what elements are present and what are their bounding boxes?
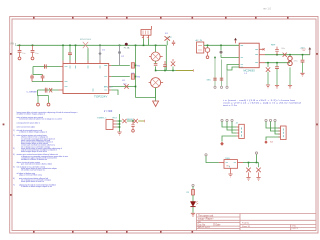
wire main HV rail <box>17 44 166 46</box>
svg-text:aliqua ut enim ad minim venia: aliqua ut enim ad minim venia <box>19 174 42 177</box>
supply arrow +24V <box>300 47 312 55</box>
svg-text:MC34063: MC34063 <box>244 68 256 72</box>
lamp/varistor circle RV3 <box>149 78 164 98</box>
connector J2 pads <box>221 119 223 121</box>
ground GND4 arrow <box>153 101 159 107</box>
wire left column x33 <box>32 67 34 75</box>
svg-text:VIN: VIN <box>10 43 14 46</box>
junction x215 y57.5 <box>214 57 216 59</box>
wire tap column x221.5 <box>221 60 223 87</box>
switch S1 above rail <box>165 33 171 45</box>
supply arrow above U2 <box>234 38 237 43</box>
capacitor C19 x302.5 <box>301 55 305 73</box>
op IC U4 7805 box <box>224 158 238 168</box>
junction rowA x290 <box>289 54 291 56</box>
ground GND5 <box>206 56 209 59</box>
junction timer y124 <box>119 123 121 125</box>
ground GND15 <box>256 178 260 181</box>
svg-text:ut labore et dolore magna aliq: ut labore et dolore magna aliqua ut <box>19 130 48 133</box>
svg-text:470u: 470u <box>294 61 298 63</box>
svg-text:mega <Player>: mega <Player> <box>198 218 214 221</box>
diode D5 inline row A <box>283 53 287 57</box>
ground GND8 <box>288 86 292 89</box>
wire R3 to LED <box>192 195 194 202</box>
node olive end tick 2 <box>144 120 146 122</box>
svg-text:Date: Date <box>216 223 222 226</box>
capacitor C4 inline x70 <box>68 45 72 63</box>
svg-text:quis nostrud exercitation ulla: quis nostrud exercitation ullamco labor <box>21 163 52 166</box>
wire relay pins to column <box>117 121 120 127</box>
svg-text:Doc No: Doc No <box>198 224 206 226</box>
svg-text:i = (vout - vref) / (1.8 x r1/: i = (vout - vref) / (1.8 x r1/r2 + 1.2) … <box>223 99 295 102</box>
stub U4 in <box>219 162 224 164</box>
U2 right pin NC stub <box>259 48 265 50</box>
capacitor C8 inline <box>45 64 47 68</box>
svg-text:dolore magna aliqua ut enim ad: dolore magna aliqua ut enim ad mi <box>21 150 48 153</box>
wire gnd drop x38 <box>37 96 39 104</box>
svg-text:L.H 2:1: L.H 2:1 <box>292 228 298 230</box>
svg-text:Prod No: Prod No <box>242 222 249 225</box>
wire J2 pin3 <box>232 122 237 134</box>
junction rail x143.5 <box>143 45 145 47</box>
wire U1 pin4 stub <box>111 90 118 95</box>
junction rail x70 <box>69 45 71 47</box>
wire olive net y70.5 <box>176 70 194 72</box>
ground GND17 <box>191 213 195 216</box>
diode D4 <box>49 88 52 92</box>
svg-text:Sheet 1/1: Sheet 1/1 <box>242 225 250 228</box>
wire timer junction column <box>119 114 121 132</box>
ground GND12 diamond <box>220 142 224 146</box>
svg-text:TOP224Y: TOP224Y <box>94 94 108 98</box>
node olive end tick <box>193 69 195 71</box>
junction timer y121 <box>119 120 121 122</box>
capacitor C15 ref above row A <box>271 45 279 55</box>
junction x133 y121 <box>132 120 134 122</box>
junction rail x155.6 <box>155 45 157 47</box>
wire feedback row y70.5 <box>156 70 176 72</box>
svg-text:consequat lorem ipsum dolor si: consequat lorem ipsum dolor si <box>17 122 41 125</box>
junction rail x135.5 <box>135 45 137 47</box>
diode D2 <box>111 83 135 88</box>
junction rowA x302.5 <box>302 54 304 56</box>
pad terminal x227 <box>226 86 228 88</box>
wire common vertical x135.5 <box>135 45 137 97</box>
svg-text:100n: 100n <box>281 48 285 50</box>
svg-text:lorem ipsum dolor sit amet co: lorem ipsum dolor sit amet co <box>21 180 44 183</box>
pad terminal x221.5 <box>220 86 222 88</box>
ground GND10 <box>117 132 121 135</box>
wire rail end drop x166.3 <box>165 45 167 70</box>
LED LED1 <box>190 201 198 206</box>
wire output row A y54.7 <box>259 54 310 56</box>
junction x207.5 <box>207 45 209 47</box>
svg-text:elit sed do eiusmod tempor inc: elit sed do eiusmod tempor inc <box>21 169 45 172</box>
connector J2 box <box>236 123 245 139</box>
pad input 5V reg <box>205 154 207 156</box>
capacitor C17 x277 <box>275 63 279 85</box>
ground GND2 <box>31 57 34 60</box>
svg-text:SEC: SEC <box>207 80 212 82</box>
ground GND9 <box>300 73 304 76</box>
capacitor C13 inline <box>213 78 216 80</box>
op IC U2 MC34063 box <box>239 43 259 72</box>
wire U4 output <box>243 162 259 164</box>
svg-text:ut labore et dolore magna aliq: ut labore et dolore magna aliqua ut eni <box>21 185 53 188</box>
svg-text:RST: RST <box>113 117 118 119</box>
U1 pin stub left y90 <box>59 89 64 91</box>
frame column tick digits top <box>33 17 289 19</box>
capacitor C6 small <box>172 40 175 45</box>
wire X4 pin4 <box>266 137 280 140</box>
svg-text:10n: 10n <box>35 53 38 55</box>
capacitor C14 inline <box>220 78 223 80</box>
junction rail x32.5 <box>32 45 34 47</box>
junction timer y127 <box>119 126 121 128</box>
frame row letter right <box>316 53 318 125</box>
capacitor C11 <box>45 88 47 93</box>
inductor dark bead L2 <box>220 45 223 57</box>
NOTES text block (blue) <box>17 111 79 188</box>
wire output row B y62.7 <box>259 62 290 64</box>
resistor R1 <box>111 63 141 68</box>
stub U4 out <box>238 162 244 164</box>
wire X4 pin3 <box>275 122 280 135</box>
junction x135.5 y76.5 <box>135 76 137 78</box>
capacitor C23 <box>256 163 261 178</box>
junction rowB x277 <box>276 62 278 64</box>
wire sense row y90 <box>38 89 59 91</box>
junction x248.5 <box>248 162 250 164</box>
svg-text:rev 1.0: rev 1.0 <box>263 7 271 11</box>
U1 pin stubs red <box>61 65 112 90</box>
junction x135.5 y86.5 <box>135 86 137 88</box>
op IC U1 TOP224 box <box>63 64 109 99</box>
ground GND14 <box>246 178 250 181</box>
svg-text:4x = 100: 4x = 100 <box>104 87 113 89</box>
svg-text:ut labore et dolore magna aliq: ut labore et dolore magna aliqua ut <box>17 113 46 116</box>
junction rail x63 <box>62 45 64 47</box>
ground GND11 circle <box>132 130 135 133</box>
wire 5V up pad <box>256 154 258 162</box>
node VIN label <box>10 43 17 46</box>
ground GND7 <box>275 86 279 89</box>
junction x258.5 <box>256 162 258 164</box>
capacitor C10 <box>41 75 45 82</box>
relay K1 box <box>106 120 117 130</box>
wire rail to U1 pin x63 <box>62 45 64 60</box>
connector X4 box <box>278 126 286 140</box>
bridge rectifier B1 <box>80 39 92 63</box>
svg-text:The power unit: The power unit <box>198 214 214 217</box>
svg-text:Title: Title <box>198 220 202 223</box>
svg-text:amet consectetur adipis: amet consectetur adipis <box>17 125 36 128</box>
wire J2 pin2 <box>227 122 237 131</box>
TITLE BLOCK <box>197 214 317 231</box>
wire X4 pin2 <box>271 122 281 132</box>
capacitor C2 <box>31 45 39 57</box>
junction y70.5 x155.6 <box>155 70 157 72</box>
title block texts <box>198 214 298 230</box>
junction x135.5 y65.4 <box>135 65 137 67</box>
U1 pin labels cyan <box>65 65 108 91</box>
capacitor C20 inline <box>120 119 134 123</box>
junction rail x19.5 <box>19 45 21 47</box>
wire tap column x227 <box>226 70 228 86</box>
svg-text:tr = 300: tr = 300 <box>104 110 113 113</box>
junction rowA x277 <box>276 54 278 56</box>
connector X4 pads <box>265 119 267 121</box>
U2 pin labels cyan <box>241 45 258 67</box>
wire bottom link to gnd arrow <box>136 88 156 101</box>
svg-text:VCC: VCC <box>168 37 173 39</box>
junction rail x100 <box>99 45 101 47</box>
capacitor C22 <box>246 163 251 178</box>
junction y70.5 x165 <box>164 70 166 72</box>
junction y70.5 x173 <box>172 70 174 72</box>
svg-text:incididunt ut labore et dolore: incididunt ut labore et dolore ma <box>21 158 47 161</box>
capacitor C18 electrolytic double x290 <box>288 55 292 85</box>
wire tap column x215 <box>214 58 216 87</box>
svg-text:TIMER_C: TIMER_C <box>97 117 107 119</box>
junction rail x119.5 <box>119 45 121 47</box>
svg-text:exercitation ullamco laboris n: exercitation ullamco laboris nisi ut ali… <box>19 118 63 121</box>
svg-text:1 No.: 1 No. <box>292 225 297 227</box>
junction x221 <box>220 45 222 47</box>
diode D3 <box>171 59 175 71</box>
fuse F1 dark bead on rail <box>124 43 130 50</box>
wire gnd drop x48.5 <box>48 96 50 104</box>
diode D6 inline <box>134 119 138 123</box>
connector X1 input box <box>196 39 204 53</box>
ground GND1 <box>18 57 21 60</box>
lamp/varistor circle RV2 <box>149 45 163 70</box>
capacitor C16 x268 <box>266 63 270 85</box>
junction rowB x268 <box>267 62 269 64</box>
wire LED to gnd <box>192 207 194 213</box>
wire olive reset net <box>138 120 144 122</box>
fuse F2 gray x119.5 <box>118 45 125 65</box>
svg-text:AC_IN: AC_IN <box>196 39 203 42</box>
notes list bullets <box>13 130 15 187</box>
capacitor C7 <box>163 61 167 71</box>
resistor R3 <box>192 190 195 196</box>
wire into U4 <box>206 156 219 163</box>
frame column tick digits bottom <box>33 231 193 233</box>
ground GND6 <box>266 85 270 88</box>
wire J2 pin4 to gnd <box>222 136 237 142</box>
wire rail to U1 pin x75.5 <box>75 45 77 60</box>
wire into U2 pin y57.5 <box>221 57 239 59</box>
formulas text (blue) right middle <box>223 99 302 107</box>
svg-text:F1 4A: F1 4A <box>124 46 130 49</box>
pad LED top <box>192 184 194 186</box>
capacitor C1 <box>18 45 26 57</box>
wire X4 pin1 <box>266 122 280 129</box>
ground GND3b <box>47 103 50 106</box>
svg-text:C_SENSE: C_SENSE <box>27 91 38 93</box>
resistor R2 <box>111 74 141 79</box>
svg-text:B250C1000: B250C1000 <box>80 39 92 41</box>
pad 5V out <box>255 152 257 154</box>
U2 left pin wires <box>227 65 239 71</box>
wire J2 pin1 <box>222 122 237 128</box>
ground GND3a <box>37 103 40 106</box>
wire U1 left pin1 row <box>33 66 61 68</box>
ground GND16 under U4 <box>228 168 232 177</box>
capacitor C21 <box>131 121 134 129</box>
wire buck input rail <box>204 44 239 46</box>
wire pad to R3 <box>192 187 194 190</box>
pad terminal x215 <box>214 86 216 88</box>
frame row letter left <box>3 53 12 196</box>
ground GND13 diamond <box>264 140 267 144</box>
svg-text:10n: 10n <box>22 53 25 55</box>
transformer T1 <box>141 26 152 39</box>
svg-text:iout = 2.1a: iout = 2.1a <box>223 104 237 107</box>
wire cap pair top link <box>33 74 43 76</box>
capacitor C9 <box>30 75 34 82</box>
inductor L3 gray x100 <box>98 45 105 63</box>
capacitor C12 electrolytic <box>204 45 210 55</box>
wire cap pair bottom to U1 <box>32 81 61 83</box>
wire T1 pins to rail <box>144 39 149 46</box>
junction rail x75.5 <box>75 45 77 47</box>
svg-text:SPLIT 1.2.3: SPLIT 1.2.3 <box>198 227 211 229</box>
wire sense drop x37.5 <box>38 90 49 96</box>
svg-text:REF: REF <box>271 45 276 47</box>
